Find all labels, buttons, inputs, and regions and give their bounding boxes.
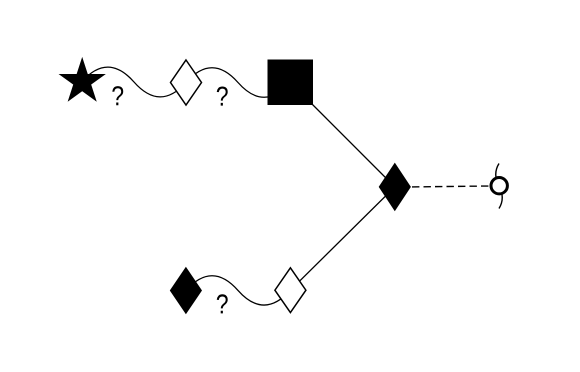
- wire: line square to center diamond: [291, 83, 395, 187]
- wire: vertical wavy chain through circle: [496, 164, 503, 209]
- label: unknown linkage ? (star): [112, 86, 123, 105]
- wire: dashed linkage center diamond to circle: [412, 185, 490, 188]
- wire: line center diamond to bottom open diamond: [290, 187, 394, 290]
- filled square residue: [268, 60, 314, 106]
- wire: wavy linkage star to open diamond: [82, 67, 186, 97]
- label: unknown linkage ? (bottom diamond): [217, 294, 228, 313]
- open diamond residue (top): [171, 60, 202, 105]
- filled diamond residue (bottom left): [170, 268, 201, 314]
- wire: wavy linkage bottom filled diamond to bottom open diamond: [186, 276, 290, 305]
- label: unknown linkage ? (open diamond): [217, 87, 228, 106]
- filled diamond residue (center): [379, 164, 410, 211]
- star residue (filled five-point star): [60, 59, 104, 101]
- circle terminus (reducing end): [491, 178, 507, 194]
- open diamond residue (bottom): [275, 268, 306, 313]
- wire: wavy linkage open diamond to square: [186, 68, 291, 98]
